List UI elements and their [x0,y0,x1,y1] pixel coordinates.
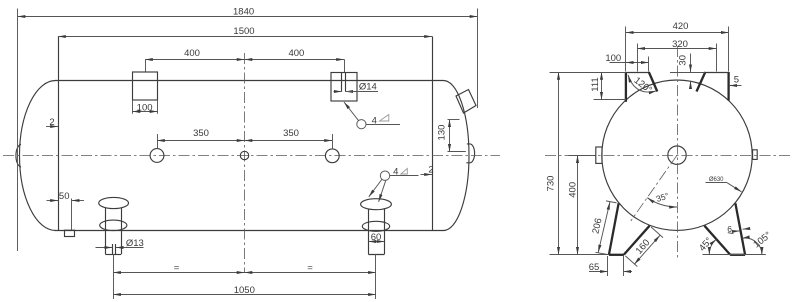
center hole circle [668,146,686,164]
dimension 206 [606,201,617,203]
svg-text:400: 400 [184,48,200,59]
left side lug [596,147,602,163]
ground line left [550,254,609,256]
left head weld seam [58,36,60,230]
svg-text:130: 130 [437,125,448,141]
left dished head [19,81,55,231]
vertical centerline [677,46,679,258]
dimension = left [113,272,244,274]
svg-text:45°: 45° [697,235,715,253]
left leg collar ellipse [100,220,127,230]
dimension 730 [558,72,560,255]
shell hole circle left [150,149,164,163]
bottom drain tab [65,230,75,236]
angle 35 callout [647,198,677,207]
35 degree axis line [631,155,677,221]
left leg bolt hole [112,244,114,254]
left leg top weld ellipse [99,197,129,208]
angle 45 callout [709,239,716,255]
dimension 2 right [421,174,433,176]
left end boss [16,144,21,167]
tank shell bottom line [55,230,444,232]
dimension 111 [594,99,627,101]
angle 105 callout [742,238,762,255]
right leg collar ellipse [362,221,389,231]
horizontal centerline [3,155,500,157]
right leg pipe [368,209,370,255]
dimension 6 (leg thickness) [733,230,739,233]
dimension 1500 [58,36,432,38]
right end boss [466,144,474,163]
dimension 50 [71,199,73,231]
right side lug [753,150,758,160]
svg-text:320: 320 [672,39,688,50]
svg-text:60: 60 [371,232,382,243]
svg-text:50: 50 [59,191,70,202]
dimension 1050 [113,254,115,299]
dimension 130 [449,119,451,151]
shell circle [602,80,752,230]
dimension 30 [690,54,692,73]
nozzle N1 (left top fitting) [133,72,158,100]
dimension 350 left [157,134,159,149]
svg-text:=: = [307,263,313,274]
svg-text:111: 111 [590,77,601,91]
svg-text:1050: 1050 [234,285,255,296]
nozzle N2 hole lines [341,73,343,92]
top bracket left [625,72,627,102]
dimension 2 left [46,126,58,128]
dimension 420 [625,27,627,72]
svg-text:35°: 35° [655,190,670,203]
svg-text:65: 65 [589,262,600,273]
nozzle N2 (right top fitting) [331,73,357,102]
dimension 60 [368,241,384,243]
svg-text:Ø630: Ø630 [709,177,724,183]
svg-text:100: 100 [137,102,153,113]
dimension Ø13 [96,247,113,249]
extension line at bracket top level [550,72,626,74]
dimension 160 [651,227,663,238]
left leg plate [609,203,619,255]
diameter 630 leader [706,182,728,184]
dimension 400 left [145,59,147,71]
angle 120 callout [628,75,656,92]
dimension = right [245,272,376,274]
tank shell top line [55,80,444,82]
svg-text:4: 4 [393,166,398,177]
svg-text:6: 6 [727,224,732,234]
svg-text:105°: 105° [751,230,773,251]
svg-text:400: 400 [288,48,304,59]
right head weld seam [432,36,434,230]
dimension 65 [607,256,609,276]
svg-text:=: = [174,263,180,274]
top bracket right [727,72,729,101]
svg-text:4: 4 [372,116,377,127]
svg-text:350: 350 [193,128,209,139]
dimension 400 right [344,59,346,72]
svg-text:Ø13: Ø13 [126,238,144,249]
svg-text:30: 30 [677,55,688,66]
svg-text:2: 2 [428,165,433,176]
svg-text:400: 400 [568,182,579,198]
svg-text:5: 5 [734,75,739,86]
shell hole circle right [325,149,339,163]
ground line right [703,254,766,256]
weld callout W1 on nozzle N2 [344,102,359,121]
right leg top weld ellipse [361,199,392,210]
svg-text:420: 420 [673,21,689,32]
horizontal centerline [545,155,793,157]
svg-text:730: 730 [546,176,557,192]
svg-text:350: 350 [283,128,299,139]
weld callout W2 on right leg [380,171,389,180]
dimension 1840 [17,9,19,252]
svg-text:Ø14: Ø14 [359,81,377,92]
shell hole circle center [240,151,248,159]
svg-text:1500: 1500 [233,26,254,37]
left leg pipe [105,208,107,255]
dimension 320 [637,44,639,72]
right dished head [444,81,470,231]
dimension 100 [132,100,134,114]
dimension 350 right [332,134,334,150]
dimension 5 (bracket thickness) [729,85,741,87]
svg-text:100: 100 [605,53,621,64]
dimension 400 (end view) [569,155,596,157]
right leg plate [735,203,745,255]
dimension Ø14 [334,91,342,93]
svg-text:1840: 1840 [233,7,254,18]
angled nozzle on right head [456,90,476,114]
svg-text:2: 2 [49,117,54,128]
dimension 100 (bracket) [648,57,650,72]
vertical centerline [244,53,246,273]
